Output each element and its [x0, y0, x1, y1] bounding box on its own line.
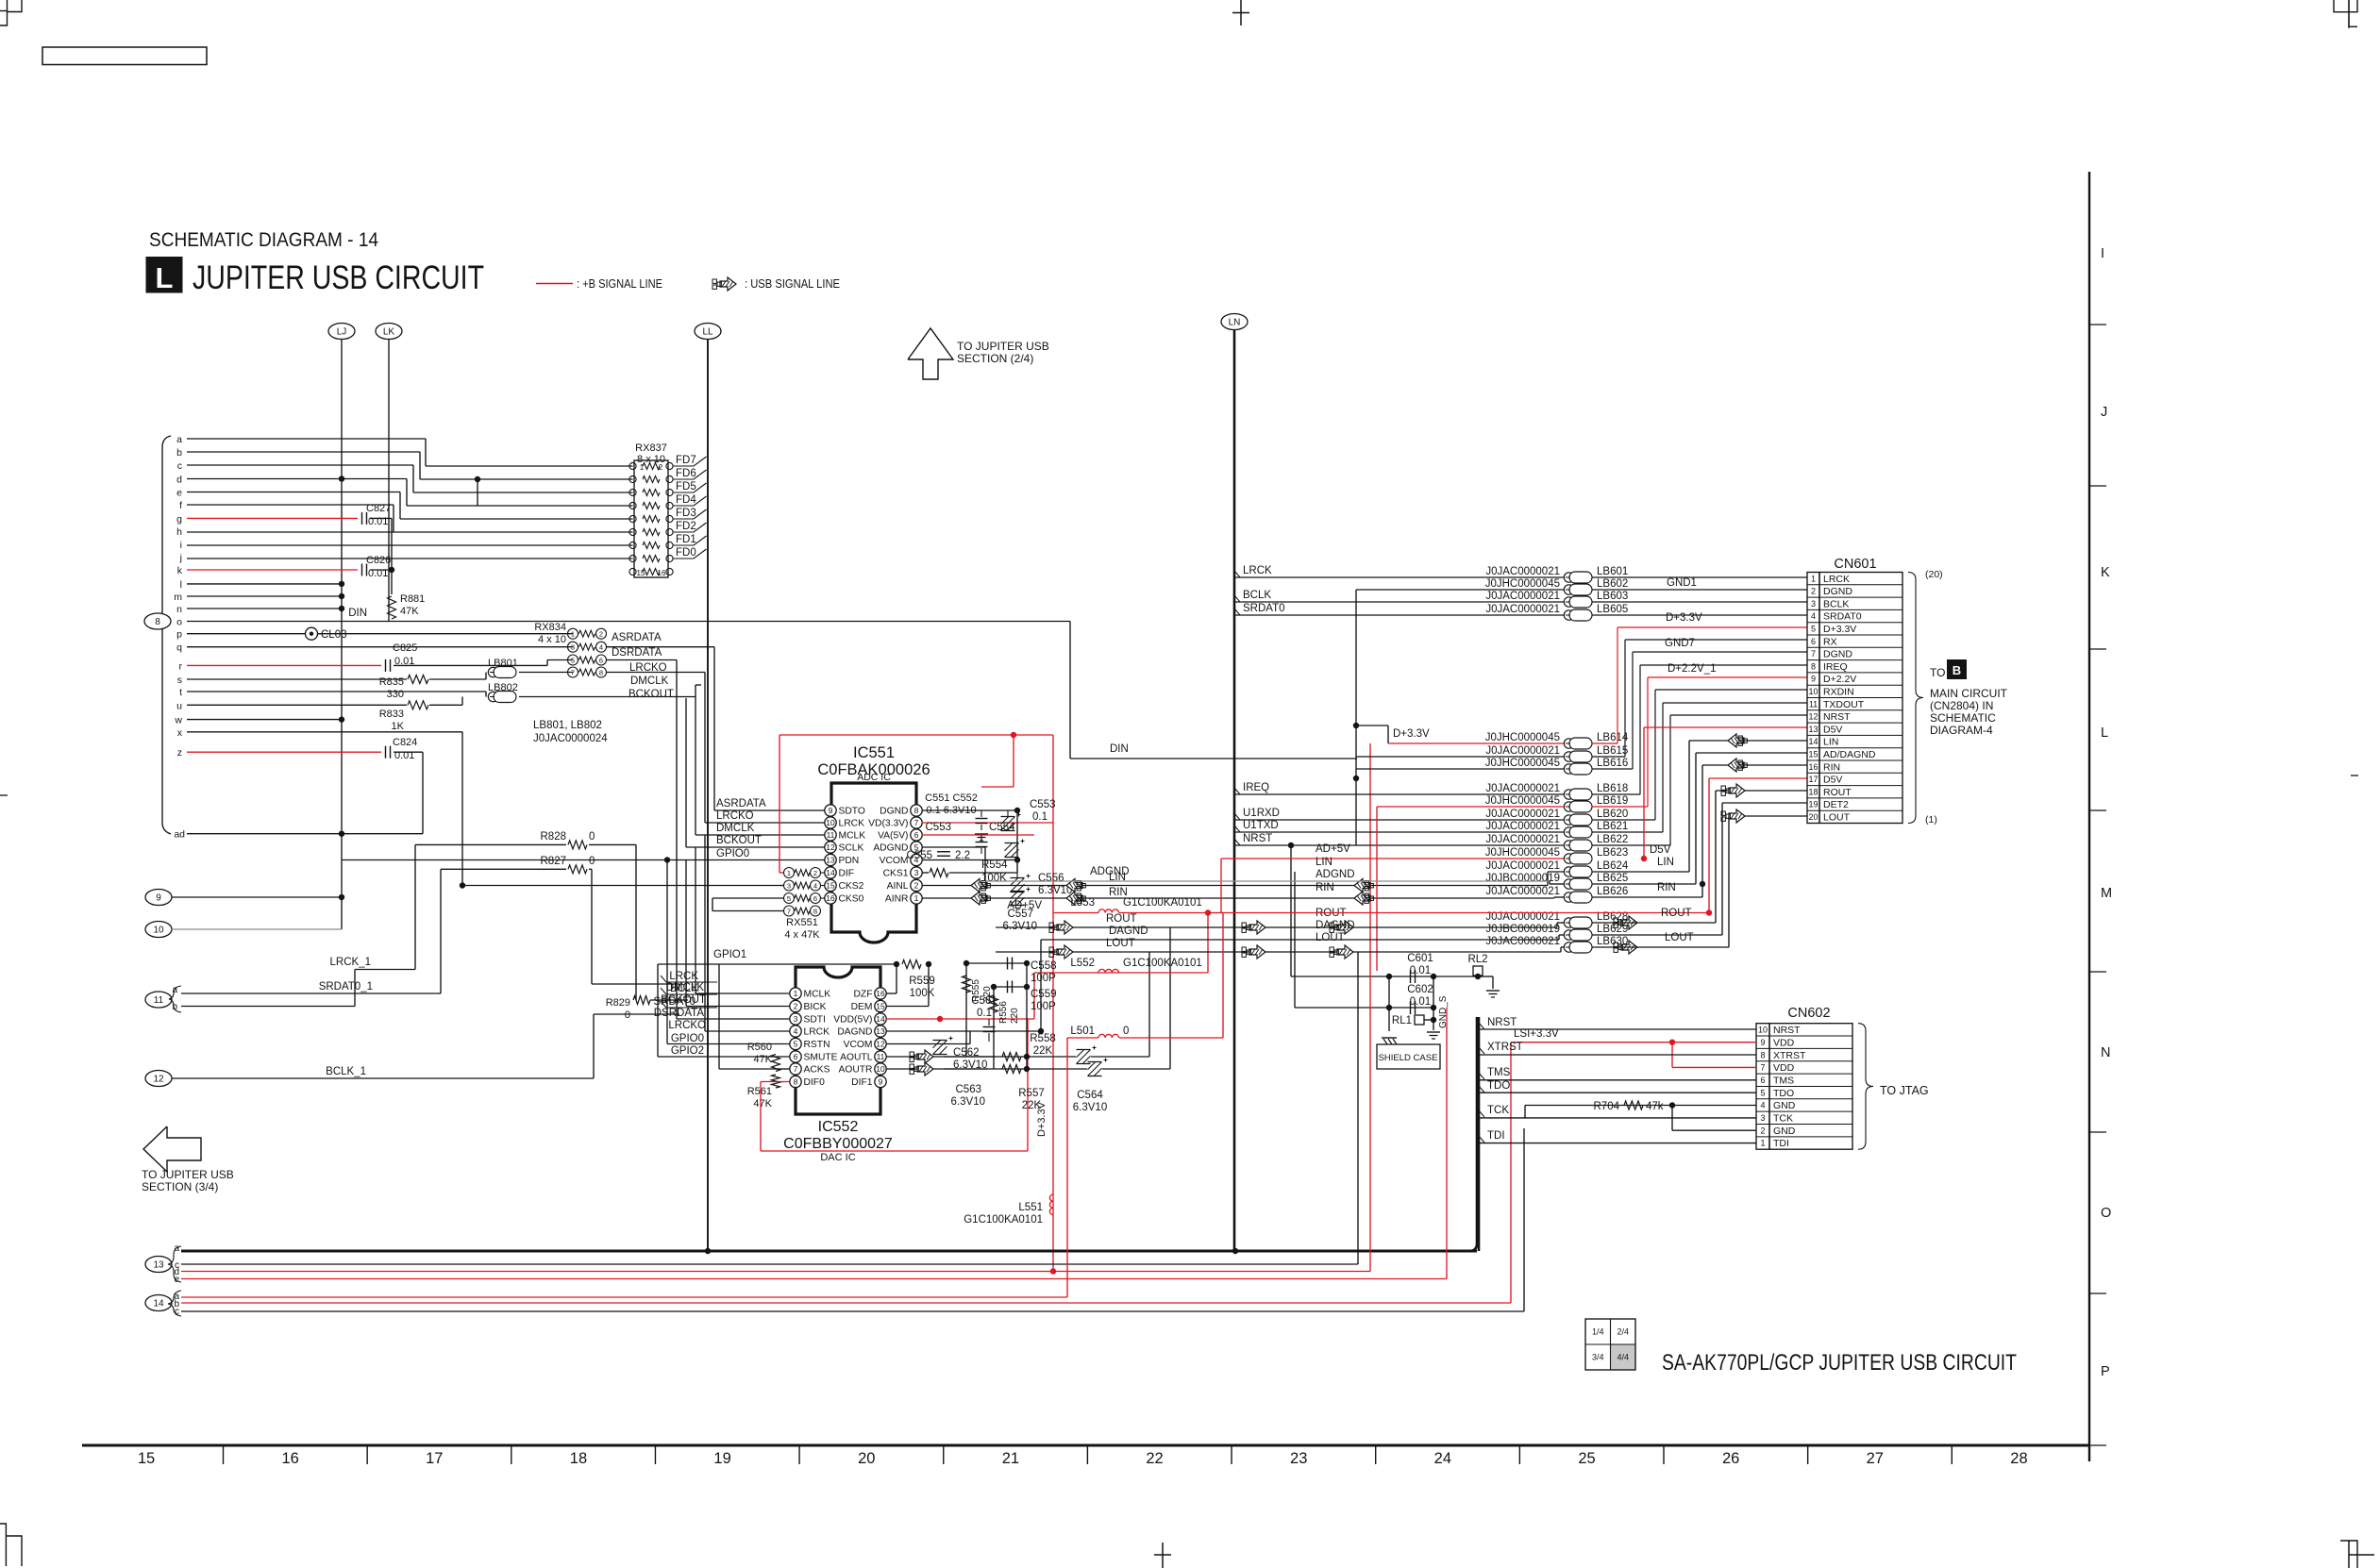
svg-text:FD2: FD2	[676, 521, 696, 532]
svg-text:MCLK: MCLK	[839, 831, 866, 842]
svg-text:GPIO0: GPIO0	[716, 848, 749, 859]
svg-text:3: 3	[1760, 1113, 1765, 1123]
svg-text:6: 6	[813, 894, 817, 903]
svg-text:K: K	[2101, 565, 2110, 580]
svg-text:LB802: LB802	[488, 682, 518, 693]
svg-text:d: d	[176, 475, 182, 486]
svg-text:13: 13	[826, 856, 835, 865]
svg-text:LRCK: LRCK	[1823, 574, 1850, 585]
svg-text:47k: 47k	[1646, 1101, 1664, 1112]
svg-text:TO JTAG: TO JTAG	[1880, 1084, 1929, 1097]
svg-text:R558: R558	[1030, 1033, 1056, 1044]
svg-text:I: I	[2101, 246, 2104, 261]
svg-text:M: M	[2101, 886, 2112, 901]
svg-text:4/4: 4/4	[1617, 1353, 1629, 1362]
svg-text:p: p	[176, 629, 182, 641]
svg-text:LJ: LJ	[337, 327, 347, 338]
svg-text:J0JBC0000019: J0JBC0000019	[1485, 873, 1560, 884]
svg-text:JUPITER USB CIRCUIT: JUPITER USB CIRCUIT	[193, 259, 484, 296]
svg-text:LRCKO: LRCKO	[716, 810, 754, 822]
svg-text:LB620: LB620	[1597, 809, 1628, 820]
svg-text:BICK: BICK	[804, 1002, 827, 1012]
svg-text:DIAGRAM-4: DIAGRAM-4	[1930, 724, 1993, 737]
svg-text:8: 8	[1760, 1050, 1765, 1059]
svg-text:2: 2	[659, 463, 663, 472]
svg-text:8: 8	[155, 617, 160, 627]
svg-text:B: B	[1953, 663, 1961, 677]
svg-text:13: 13	[1808, 725, 1818, 734]
svg-text:AOUTR: AOUTR	[838, 1065, 872, 1076]
svg-text:DAGND: DAGND	[1316, 920, 1355, 931]
svg-text:CKS0: CKS0	[839, 894, 864, 905]
svg-text:21: 21	[1002, 1450, 1019, 1467]
svg-text:10: 10	[826, 818, 835, 827]
svg-text:2/4: 2/4	[1617, 1327, 1629, 1337]
svg-text:RSTN: RSTN	[804, 1040, 830, 1050]
svg-text:4: 4	[813, 882, 817, 891]
svg-text:8: 8	[1811, 661, 1816, 671]
svg-text:2: 2	[914, 881, 919, 891]
svg-text:R555: R555	[971, 979, 981, 1002]
svg-text:19: 19	[1808, 800, 1818, 809]
svg-text:BCLK: BCLK	[1243, 590, 1271, 601]
svg-text:LB801, LB802: LB801, LB802	[533, 720, 602, 731]
svg-text:DIF0: DIF0	[804, 1077, 826, 1088]
svg-text:FD5: FD5	[676, 481, 696, 492]
svg-text:ADC IC: ADC IC	[857, 772, 891, 783]
svg-text:14: 14	[876, 1014, 885, 1024]
svg-text:IC552: IC552	[818, 1119, 859, 1135]
svg-text:LB619: LB619	[1597, 795, 1628, 807]
svg-text:L501: L501	[1070, 1026, 1095, 1037]
svg-text:C0FBBY000027: C0FBBY000027	[783, 1136, 893, 1152]
svg-text:4 x 47K: 4 x 47K	[784, 929, 820, 941]
svg-text:J0JAC0000021: J0JAC0000021	[1485, 745, 1560, 757]
svg-text:23: 23	[1290, 1450, 1307, 1467]
svg-text:DSRDATA: DSRDATA	[612, 647, 662, 659]
svg-text:6: 6	[1811, 637, 1816, 646]
svg-text:12: 12	[153, 1075, 164, 1085]
svg-text:R829: R829	[606, 997, 630, 1009]
svg-text:47K: 47K	[753, 1098, 772, 1109]
svg-text:6: 6	[1760, 1076, 1765, 1085]
svg-text:RIN: RIN	[1657, 882, 1676, 893]
svg-text:D5V: D5V	[1823, 775, 1842, 786]
svg-text:0.1: 0.1	[977, 1008, 992, 1019]
svg-text:AINR: AINR	[885, 894, 909, 905]
svg-text:LB616: LB616	[1597, 758, 1628, 769]
svg-text:R560: R560	[747, 1042, 772, 1053]
svg-text:RX837: RX837	[635, 442, 667, 454]
svg-text:C825: C825	[393, 642, 417, 654]
svg-text:19: 19	[713, 1450, 730, 1467]
svg-text:VDD: VDD	[1773, 1037, 1795, 1048]
svg-text:C827: C827	[366, 503, 391, 514]
svg-text:16: 16	[876, 989, 885, 998]
svg-text:FD3: FD3	[676, 508, 696, 519]
svg-text:7: 7	[787, 908, 791, 916]
svg-text:100P: 100P	[1031, 973, 1056, 984]
svg-text:1: 1	[571, 630, 575, 639]
svg-text:f: f	[179, 500, 182, 511]
svg-text:XTRST: XTRST	[1773, 1050, 1806, 1061]
svg-text:N: N	[2101, 1045, 2110, 1060]
svg-text:J0JAC0000021: J0JAC0000021	[1485, 886, 1560, 897]
svg-text:DAGND: DAGND	[1109, 926, 1148, 937]
svg-text:9: 9	[1811, 675, 1816, 684]
svg-text:k: k	[177, 565, 183, 576]
svg-text:ROUT: ROUT	[1823, 787, 1852, 798]
svg-text:DGND: DGND	[880, 807, 908, 817]
svg-text:8: 8	[599, 669, 603, 677]
svg-text:LRCKO: LRCKO	[668, 1020, 706, 1031]
svg-text:FD4: FD4	[676, 494, 696, 506]
svg-text:14: 14	[826, 868, 835, 877]
svg-text:n: n	[176, 604, 182, 615]
svg-text:BCLK: BCLK	[670, 983, 698, 994]
svg-text:C554: C554	[989, 822, 1015, 833]
svg-text:5: 5	[794, 1040, 798, 1049]
svg-text:LB801: LB801	[488, 658, 518, 669]
svg-text:LB602: LB602	[1597, 578, 1628, 590]
svg-text:11: 11	[154, 995, 164, 1006]
svg-text:NRST: NRST	[1487, 1017, 1517, 1028]
svg-text:NRST: NRST	[1823, 711, 1851, 723]
svg-text:FD1: FD1	[676, 534, 696, 545]
svg-text:ASRDATA: ASRDATA	[716, 798, 766, 809]
svg-text:TDO: TDO	[1487, 1080, 1510, 1092]
svg-text:L: L	[156, 261, 174, 294]
svg-text:SDTI: SDTI	[804, 1015, 826, 1026]
svg-text:R561: R561	[747, 1086, 772, 1097]
svg-text:TO: TO	[1930, 666, 1945, 679]
svg-text:J0JAC0000021: J0JAC0000021	[1485, 821, 1560, 832]
svg-text:TMS: TMS	[1773, 1075, 1794, 1086]
svg-text:PDN: PDN	[839, 856, 860, 866]
svg-text:LB601: LB601	[1597, 566, 1628, 577]
svg-text:DIF: DIF	[839, 869, 855, 879]
svg-text:RX834: RX834	[534, 622, 566, 633]
svg-text:GND1: GND1	[1667, 577, 1697, 589]
svg-text:J0JBC0000019: J0JBC0000019	[1485, 924, 1560, 935]
svg-text:R835: R835	[379, 676, 404, 688]
svg-text:VD(3.3V): VD(3.3V)	[868, 819, 908, 829]
svg-text:P: P	[2101, 1364, 2110, 1379]
svg-text:C553: C553	[1030, 799, 1056, 810]
svg-text:LIN: LIN	[1316, 857, 1332, 868]
svg-text:15: 15	[876, 1002, 885, 1011]
svg-text:5: 5	[787, 894, 791, 903]
svg-text:t: t	[179, 687, 182, 698]
svg-text:6: 6	[599, 657, 603, 665]
svg-text:0: 0	[589, 856, 595, 867]
svg-text:VCOM: VCOM	[844, 1040, 873, 1050]
svg-text:L551: L551	[1018, 1202, 1043, 1213]
svg-text:C563: C563	[956, 1084, 982, 1095]
svg-text:J0JAC0000021: J0JAC0000021	[1485, 783, 1560, 794]
svg-text:R704: R704	[1594, 1101, 1620, 1112]
svg-text:g: g	[176, 513, 182, 525]
svg-text:GPIO1: GPIO1	[713, 949, 746, 960]
svg-text:LB614: LB614	[1597, 732, 1629, 743]
svg-text:DMCLK: DMCLK	[630, 676, 669, 687]
svg-text:12: 12	[826, 842, 835, 852]
svg-text:DZF: DZF	[853, 990, 872, 1000]
svg-text:D+3.3V: D+3.3V	[1393, 728, 1430, 740]
svg-text:SRDAT0: SRDAT0	[653, 996, 696, 1008]
svg-text:15: 15	[1808, 750, 1818, 759]
svg-text:LK: LK	[383, 327, 395, 338]
svg-text:CL03: CL03	[321, 629, 347, 641]
svg-text:DSRDATA: DSRDATA	[654, 1008, 705, 1019]
svg-text:1: 1	[787, 869, 791, 877]
svg-text:a: a	[174, 1243, 179, 1254]
svg-text:C553: C553	[926, 822, 952, 833]
svg-text:J0JHC0000045: J0JHC0000045	[1485, 578, 1560, 590]
svg-text:28: 28	[2010, 1450, 2027, 1467]
svg-text:LRCKO: LRCKO	[629, 662, 667, 674]
svg-text:LB618: LB618	[1597, 783, 1628, 794]
svg-text:8: 8	[813, 908, 817, 916]
svg-text:2: 2	[794, 1002, 798, 1011]
svg-text:G1C100KA0101: G1C100KA0101	[1123, 958, 1202, 969]
svg-text:LRCK: LRCK	[1243, 565, 1272, 576]
svg-text:J0JAC0000021: J0JAC0000021	[1485, 834, 1560, 845]
svg-text:D5V: D5V	[1823, 724, 1842, 735]
svg-text:LB626: LB626	[1597, 886, 1628, 897]
svg-text:s: s	[177, 675, 182, 686]
svg-text:R833: R833	[379, 709, 404, 720]
svg-text:ACKS: ACKS	[804, 1065, 830, 1076]
svg-text:C601: C601	[1407, 953, 1433, 964]
svg-text:13: 13	[153, 1260, 164, 1271]
svg-text:AD+5V: AD+5V	[1007, 900, 1042, 911]
svg-text:NRST: NRST	[1773, 1025, 1801, 1036]
svg-text:ADGND: ADGND	[1316, 869, 1355, 880]
svg-text:1K: 1K	[392, 721, 405, 732]
svg-text:6.3V10: 6.3V10	[1003, 921, 1037, 932]
svg-text:3: 3	[794, 1014, 798, 1024]
svg-text:J0JHC0000045: J0JHC0000045	[1485, 758, 1560, 769]
svg-text:2: 2	[1760, 1126, 1765, 1135]
svg-text:C559: C559	[1031, 989, 1057, 1000]
svg-text:15: 15	[826, 881, 835, 891]
svg-text:J0JHC0000045: J0JHC0000045	[1485, 732, 1560, 743]
svg-text:15: 15	[637, 569, 645, 577]
svg-text:J0JAC0000024: J0JAC0000024	[533, 733, 608, 744]
svg-text:RIN: RIN	[1823, 761, 1840, 773]
svg-text:DIN: DIN	[1110, 743, 1129, 755]
svg-text:: +B SIGNAL LINE: : +B SIGNAL LINE	[577, 277, 662, 291]
svg-text:TO JUPITER USB: TO JUPITER USB	[142, 1168, 234, 1181]
svg-text:AD/DAGND: AD/DAGND	[1823, 749, 1876, 760]
svg-text:5: 5	[571, 657, 575, 665]
svg-text:9: 9	[156, 893, 161, 904]
svg-text:CN602: CN602	[1787, 1006, 1830, 1021]
svg-text:DAC IC: DAC IC	[820, 1152, 855, 1163]
svg-text:TMS: TMS	[1487, 1067, 1511, 1078]
svg-text:5: 5	[1811, 625, 1816, 634]
svg-text:LL: LL	[702, 327, 713, 338]
svg-text:DET2: DET2	[1823, 799, 1849, 810]
svg-text:LB623: LB623	[1597, 847, 1628, 859]
svg-text:ad: ad	[174, 829, 185, 841]
svg-text:J0JAC0000021: J0JAC0000021	[1485, 591, 1560, 602]
svg-text:z: z	[177, 747, 182, 759]
svg-text:16: 16	[826, 893, 835, 903]
svg-text:IREQ: IREQ	[1823, 661, 1848, 673]
svg-text:b: b	[172, 1002, 177, 1012]
svg-text:16: 16	[281, 1450, 298, 1467]
svg-text:ADGND: ADGND	[1090, 866, 1130, 877]
svg-text:7: 7	[571, 669, 575, 677]
svg-text:SCHEMATIC: SCHEMATIC	[1930, 711, 1996, 725]
svg-text:220: 220	[1010, 1008, 1020, 1024]
svg-text:MAIN CIRCUIT: MAIN CIRCUIT	[1930, 687, 2008, 700]
svg-text:TXDOUT: TXDOUT	[1823, 699, 1865, 710]
svg-text:11: 11	[877, 1052, 885, 1061]
svg-text:7: 7	[914, 818, 919, 827]
svg-text:8: 8	[794, 1077, 798, 1087]
svg-text:RXDIN: RXDIN	[1823, 687, 1854, 698]
svg-text:LB625: LB625	[1597, 873, 1628, 884]
svg-text:LRCK_1: LRCK_1	[330, 957, 371, 968]
svg-text:AD+5V: AD+5V	[1316, 843, 1350, 855]
svg-text:13: 13	[876, 1026, 885, 1036]
svg-text:x: x	[177, 727, 183, 739]
svg-text:m: m	[174, 592, 182, 603]
svg-text:i: i	[180, 540, 182, 551]
svg-text:C558: C558	[1031, 960, 1057, 972]
svg-text:0: 0	[589, 831, 595, 842]
svg-text:0.01: 0.01	[1410, 965, 1431, 976]
svg-text:J0JAC0000021: J0JAC0000021	[1485, 809, 1560, 820]
svg-text:3: 3	[571, 643, 575, 652]
svg-text:a: a	[176, 434, 182, 445]
svg-text:c: c	[177, 460, 182, 472]
svg-text:18: 18	[1808, 787, 1818, 796]
svg-text:CN601: CN601	[1834, 557, 1876, 572]
svg-text:BCLK_1: BCLK_1	[326, 1066, 366, 1077]
svg-text:16: 16	[658, 569, 666, 577]
svg-text:J: J	[2101, 405, 2107, 420]
svg-text:h: h	[176, 526, 182, 538]
svg-text:LB624: LB624	[1597, 860, 1629, 872]
svg-text:TCK: TCK	[1773, 1113, 1793, 1125]
svg-text:D+3.3V: D+3.3V	[1666, 612, 1702, 624]
svg-text:4: 4	[1760, 1101, 1765, 1110]
svg-text:NRST: NRST	[1243, 833, 1272, 844]
svg-text:47K: 47K	[400, 606, 419, 617]
svg-text:5: 5	[1760, 1088, 1765, 1097]
svg-text:4 x 10: 4 x 10	[538, 634, 566, 645]
svg-text:J0JAC0000021: J0JAC0000021	[1485, 566, 1560, 577]
svg-text:J0JAC0000021: J0JAC0000021	[1485, 604, 1560, 615]
svg-text:3: 3	[787, 882, 791, 891]
svg-text:O: O	[2101, 1206, 2111, 1221]
svg-text:RIN: RIN	[1316, 882, 1334, 893]
svg-text:SRDAT0: SRDAT0	[1243, 603, 1285, 614]
svg-text:SCHEMATIC DIAGRAM - 14: SCHEMATIC DIAGRAM - 14	[149, 228, 378, 251]
svg-text:l: l	[180, 579, 182, 591]
svg-text:w: w	[174, 715, 182, 726]
svg-text:1/4: 1/4	[1592, 1327, 1604, 1337]
svg-text:14: 14	[153, 1299, 164, 1309]
svg-text:DIF1: DIF1	[851, 1077, 873, 1088]
svg-text:R827: R827	[541, 856, 567, 867]
svg-text:LSI+3.3V: LSI+3.3V	[1514, 1028, 1559, 1040]
svg-text:1: 1	[914, 893, 919, 903]
svg-text:R559: R559	[909, 976, 935, 987]
svg-text:1: 1	[640, 463, 645, 472]
svg-text:J0JHC0000045: J0JHC0000045	[1485, 847, 1560, 859]
svg-text:BCLK: BCLK	[1823, 598, 1849, 609]
svg-text:7: 7	[1811, 649, 1816, 659]
svg-text:CKS2: CKS2	[839, 881, 864, 892]
svg-text:VDD: VDD	[1773, 1062, 1795, 1074]
svg-text:e: e	[176, 488, 182, 499]
svg-text:SA-AK770PL/GCP JUPITER USB CI: SA-AK770PL/GCP JUPITER USB CIRCUIT	[1662, 1350, 2017, 1376]
svg-text:c: c	[175, 1307, 179, 1317]
svg-text:16: 16	[1808, 762, 1818, 772]
svg-text:6.3V10: 6.3V10	[951, 1096, 985, 1108]
svg-text:SRDAT0: SRDAT0	[1823, 611, 1862, 623]
svg-text:SECTION (2/4): SECTION (2/4)	[957, 352, 1033, 365]
svg-text:4: 4	[1811, 611, 1816, 621]
svg-text:3/4: 3/4	[1592, 1353, 1604, 1362]
svg-text:14: 14	[1808, 737, 1818, 746]
svg-text:LOUT: LOUT	[1823, 812, 1851, 824]
svg-text:L553: L553	[1070, 897, 1095, 909]
svg-text:11: 11	[1809, 699, 1818, 709]
svg-text:17: 17	[1808, 775, 1818, 784]
svg-text:1: 1	[794, 989, 798, 998]
svg-text:IC551: IC551	[853, 744, 895, 761]
svg-text:4: 4	[794, 1026, 798, 1036]
svg-text:RX551: RX551	[786, 917, 818, 928]
svg-text:(1): (1)	[1925, 814, 1937, 826]
svg-text:C556: C556	[1038, 873, 1064, 884]
svg-text:LOUT: LOUT	[1106, 938, 1135, 949]
svg-text:C826: C826	[366, 555, 391, 566]
svg-text:1: 1	[1760, 1139, 1765, 1148]
svg-text:C602: C602	[1407, 984, 1433, 995]
svg-text:100P: 100P	[1031, 1001, 1056, 1012]
svg-text:LB622: LB622	[1597, 834, 1628, 845]
svg-text:LB605: LB605	[1597, 604, 1628, 615]
svg-text:SMUTE: SMUTE	[804, 1053, 838, 1063]
svg-text:SCLK: SCLK	[839, 843, 864, 854]
svg-text:LRCK: LRCK	[839, 819, 865, 829]
svg-text:0: 0	[1123, 1026, 1129, 1037]
svg-text:GND_S: GND_S	[1438, 995, 1449, 1028]
svg-text:U1TXD: U1TXD	[1243, 820, 1279, 831]
svg-text:TCK: TCK	[1487, 1105, 1509, 1116]
svg-text:CKS1: CKS1	[883, 869, 909, 879]
svg-text:GPIO2: GPIO2	[671, 1045, 704, 1057]
svg-text:2: 2	[1811, 587, 1816, 596]
svg-text:1: 1	[1811, 574, 1816, 583]
svg-text:D+3.3V: D+3.3V	[1036, 1101, 1048, 1137]
svg-text:e: e	[174, 1275, 179, 1285]
svg-text:q: q	[176, 642, 182, 654]
svg-text:a: a	[172, 985, 177, 995]
svg-text:ROUT: ROUT	[1661, 908, 1692, 919]
svg-text:GND: GND	[1773, 1100, 1796, 1111]
svg-text:VCOM: VCOM	[880, 856, 909, 866]
svg-text:7: 7	[1760, 1063, 1765, 1073]
svg-text:ROUT: ROUT	[1106, 913, 1137, 925]
